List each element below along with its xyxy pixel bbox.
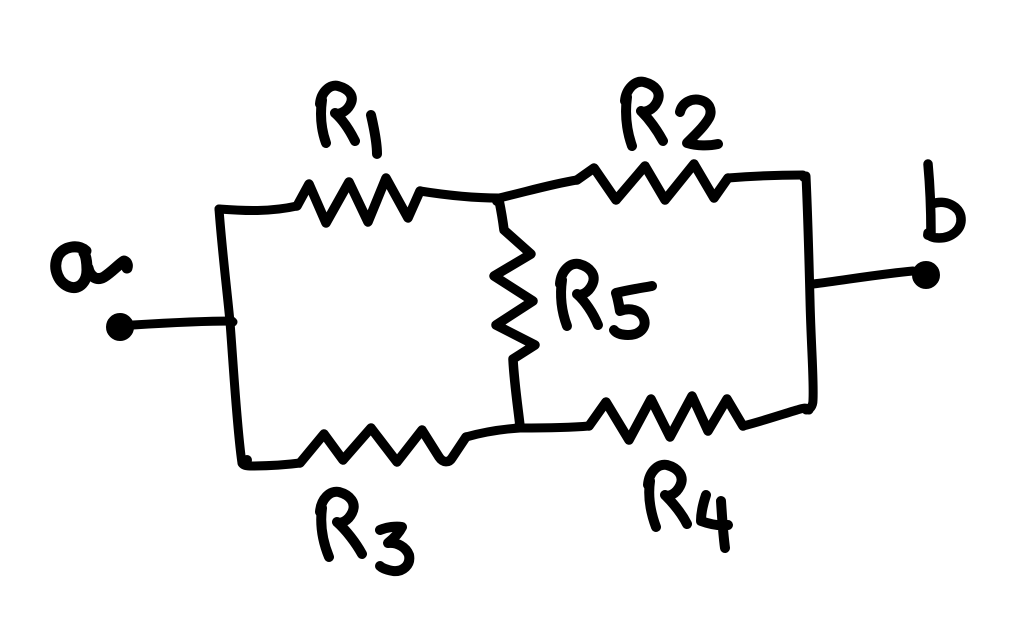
bottom-left wire (rail corner to R3) bbox=[242, 463, 300, 466]
wire R2 to right rail bbox=[728, 175, 803, 178]
label R2 subscript 2 bbox=[680, 100, 718, 146]
node top-right corner blob bbox=[799, 172, 809, 182]
resistor R5 bbox=[494, 200, 535, 426]
node bottom-left corner blob bbox=[242, 455, 252, 465]
node a-wire/rail junction blob bbox=[229, 318, 238, 327]
label R3 bbox=[320, 492, 362, 557]
label R3 subscript 3 bbox=[380, 527, 409, 571]
left rail wire bbox=[219, 209, 242, 463]
wire bottom node to R4 bbox=[520, 426, 589, 428]
label R1 subscript 1 bbox=[371, 115, 377, 154]
label b bbox=[928, 164, 961, 238]
wire R3 to bottom node bbox=[466, 428, 520, 437]
node top junction bbox=[492, 196, 502, 206]
wire top node to R2 bbox=[499, 180, 577, 198]
resistor R1 bbox=[297, 178, 420, 223]
label a bbox=[56, 247, 128, 288]
resistor R4 bbox=[589, 396, 743, 440]
resistor R2 bbox=[577, 164, 728, 200]
wire a to left rail bbox=[133, 321, 232, 325]
terminal a dot bbox=[109, 316, 131, 338]
label R5 subscript 5 bbox=[614, 286, 652, 335]
terminal b dot bbox=[915, 264, 937, 286]
label R5 bbox=[560, 264, 598, 326]
wire right rail to b bbox=[813, 271, 913, 284]
wire R4 to right rail bbox=[743, 408, 809, 426]
wire left rail to R1 bbox=[219, 206, 297, 211]
label R1 bbox=[320, 86, 355, 143]
resistor R3 bbox=[300, 428, 466, 463]
wire R1 to top node bbox=[420, 191, 499, 198]
label R2 bbox=[625, 82, 663, 146]
right rail wire bbox=[806, 176, 813, 410]
label R4 subscript 4 bbox=[701, 495, 728, 548]
label R4 bbox=[648, 465, 687, 527]
node bottom junction bbox=[514, 421, 524, 431]
